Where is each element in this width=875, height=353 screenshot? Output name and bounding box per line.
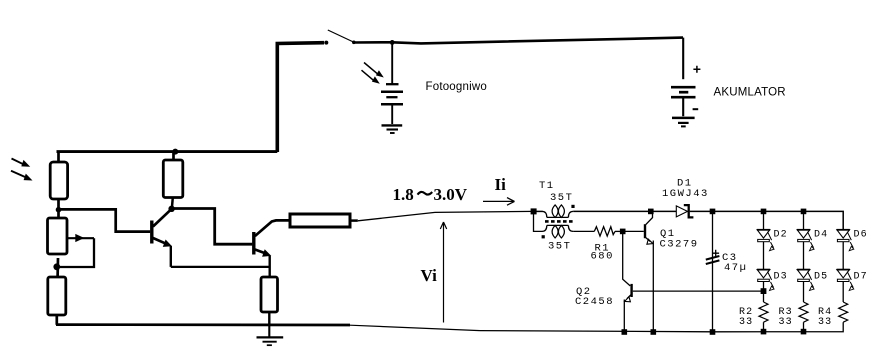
- light arrows onto photocell: [362, 63, 384, 84]
- label 680: [591, 251, 614, 263]
- wire: R2 to bottom rail: [763, 322, 765, 331]
- node: Q2 emitter on bottom rail: [622, 329, 628, 335]
- node: T1 supply node: [531, 208, 537, 214]
- junction wiper tie: [53, 263, 60, 270]
- wire: Q-a emitter lead down: [170, 246, 172, 267]
- label C3: [722, 252, 738, 264]
- wire: switch to photocell node and on to battery corner: [354, 38, 683, 44]
- label R1: [595, 243, 611, 255]
- transistor Q-a base bar: [150, 221, 153, 244]
- LED column 3 wires: [842, 242, 844, 302]
- label D4: [814, 229, 828, 240]
- diode D1: [676, 205, 693, 217]
- transistor Q1 emitter with arrow: [646, 238, 653, 245]
- label + terminal: [693, 66, 700, 73]
- wire: R1 to node N1: [615, 230, 623, 232]
- svg-text:33: 33: [739, 317, 753, 328]
- potentiometer VR: [48, 218, 68, 254]
- LED D2: [757, 230, 774, 251]
- node N1 (R1 / Q1 base / Q2 collector): [620, 229, 626, 235]
- wire: Q2 base feedback to LED column: [633, 290, 761, 292]
- LED D4: [797, 230, 814, 251]
- wire: Q2 emitter down to bottom rail: [623, 300, 625, 333]
- svg-text:Fotoogniwo: Fotoogniwo: [426, 81, 487, 93]
- resistor R2: [759, 302, 768, 322]
- wire: Q-a collector to Q-b base: [172, 209, 253, 245]
- wire: R-a bottom lead: [55, 315, 58, 325]
- wire: emitter rail: [171, 266, 270, 268]
- label D1: [677, 178, 693, 190]
- transistor Q-a collector: [153, 209, 171, 226]
- label C2458: [575, 296, 614, 308]
- transistor Q-b collector: [255, 220, 290, 236]
- LED D5: [797, 270, 814, 291]
- svg-text:D6: D6: [854, 229, 868, 240]
- label - terminal: [693, 108, 699, 110]
- svg-text:D7: D7: [854, 271, 868, 282]
- resistor R-out horizontal: [290, 214, 350, 227]
- svg-text:Vi: Vi: [421, 266, 438, 285]
- svg-text:1.8: 1.8: [393, 185, 414, 204]
- wire: top rail T1 to D1: [573, 210, 676, 212]
- label Q1: [660, 228, 676, 240]
- node: R3 on bottom rail: [801, 329, 807, 335]
- wire: thick riser from left block top rail up and right to switch: [277, 43, 324, 152]
- light arrows onto photoresistor: [11, 159, 33, 181]
- wire: C3 branch down to bottom rail: [712, 211, 714, 332]
- node: C3 on bottom rail: [710, 329, 716, 335]
- label 35T primary: [550, 192, 573, 204]
- label 35T secondary: [548, 241, 571, 253]
- node: Q1 emitter on bottom rail: [651, 329, 657, 335]
- wire: battery bottom lead: [682, 97, 684, 116]
- svg-text:D3: D3: [774, 271, 788, 282]
- wire: Q-b emitter lead down to R-e: [269, 256, 271, 278]
- wire: D1 to node N2: [690, 210, 713, 212]
- svg-text:Ii: Ii: [495, 175, 507, 194]
- wire: thin link bottom rail: [350, 325, 480, 330]
- svg-text:D4: D4: [814, 229, 828, 240]
- svg-text:33: 33: [779, 317, 793, 328]
- svg-text:1GWJ43: 1GWJ43: [662, 188, 709, 200]
- transformer T1 primary winding: [542, 205, 573, 218]
- resistor R-a lower left: [48, 277, 66, 315]
- transistor Q-b emitter with arrow: [255, 249, 271, 257]
- label Vi: [421, 266, 438, 285]
- transistor Q2 base bar: [630, 284, 632, 297]
- label Q2: [576, 286, 592, 298]
- label Fotoogniwo: [426, 81, 487, 93]
- svg-text:C2458: C2458: [575, 296, 614, 308]
- label R3: [779, 307, 793, 318]
- label Ii: [495, 175, 507, 194]
- label + of C3: [712, 250, 719, 257]
- node: R2 on bottom rail: [761, 329, 767, 335]
- wire: thin link to converter top rail: [358, 211, 533, 220]
- photoresistor (light sensor): [50, 162, 67, 199]
- wire: photocell bottom lead: [391, 104, 393, 124]
- wire: left block bottom rail: [56, 323, 350, 326]
- wire: left block top rail: [57, 150, 278, 153]
- wire: R-b to Q-a collector: [172, 198, 173, 210]
- svg-text:35T: 35T: [550, 192, 573, 204]
- resistor R-b: [163, 160, 183, 198]
- junction below photoresistor: [56, 207, 62, 213]
- svg-text:3.0V: 3.0V: [434, 185, 468, 204]
- junction: photocell tap: [390, 40, 395, 45]
- node: Q1 collector on rail: [648, 209, 654, 215]
- node: Q2 base / D3 / R2: [761, 288, 767, 294]
- wire: bottom rail of converter: [480, 322, 843, 332]
- transistor Q-b base bar: [252, 232, 255, 255]
- wire: photoresistor top lead: [57, 152, 60, 163]
- label 33 col2: [779, 317, 793, 328]
- transistor Q-a emitter with arrow: [153, 238, 172, 247]
- label D6: [854, 229, 868, 240]
- resistor R-e: [261, 277, 278, 312]
- wire: photocell top lead: [391, 42, 393, 83]
- transistor Q1 collector: [646, 214, 653, 225]
- battery AKUMLATOR: [671, 87, 696, 97]
- LED D3: [757, 270, 774, 291]
- wire: Q1 emitter down to bottom rail: [652, 241, 654, 333]
- transformer T1 secondary winding: [542, 225, 573, 238]
- wire: Q1 base wire: [625, 230, 644, 232]
- wire: photoresistor bottom lead: [57, 199, 60, 218]
- wire: R3 to bottom rail: [803, 322, 805, 331]
- T1 core (dashed): [545, 220, 574, 223]
- label D2: [774, 229, 788, 240]
- wire: pot to lower resistor: [56, 258, 59, 277]
- wire: battery top lead: [682, 38, 684, 80]
- svg-text:47µ: 47µ: [724, 262, 747, 274]
- svg-text:D5: D5: [814, 271, 828, 282]
- label T1: [539, 180, 555, 192]
- label D3: [774, 271, 788, 282]
- node: rail tap LED column 1: [761, 209, 767, 215]
- label AKUMLATOR: [714, 87, 786, 99]
- resistor R1: [594, 227, 615, 236]
- transistor Q2 collector from node N1: [623, 234, 631, 286]
- wire: R-out right stub: [350, 219, 358, 222]
- svg-text:C3279: C3279: [660, 239, 699, 251]
- T1 primary polarity dot: [571, 205, 574, 208]
- wire: R-e bottom lead: [268, 312, 270, 325]
- junction on top rail at R-b: [172, 149, 178, 155]
- label 33 col3: [818, 317, 832, 328]
- resistor R4: [839, 302, 848, 322]
- transistor Q1 base bar: [644, 224, 646, 238]
- label R4: [818, 307, 832, 318]
- T1 secondary polarity dot: [542, 235, 545, 238]
- label 47u: [724, 262, 747, 274]
- svg-text:T1: T1: [539, 180, 555, 192]
- potentiometer wiper arrow: [68, 234, 95, 242]
- arrow Vi: [440, 222, 446, 323]
- LED column 2 wires: [803, 211, 805, 302]
- LED column 1 wires: [763, 211, 765, 302]
- photocell PV (battery symbol): [381, 84, 403, 104]
- label 1GWJ43: [662, 188, 709, 200]
- transistor Q2 emitter with arrow: [625, 295, 631, 302]
- ground: left block: [257, 325, 284, 345]
- wire: secondary to R1: [573, 230, 594, 232]
- label D7: [854, 271, 868, 282]
- resistor R3: [799, 302, 808, 322]
- wire: top rail N2 to LED columns: [713, 211, 844, 229]
- wire: junction to Q-a base: [59, 209, 151, 231]
- svg-text:680: 680: [591, 251, 614, 263]
- wire: top rail left of T1: [533, 210, 543, 212]
- wire: wiper tie-down: [58, 238, 94, 267]
- label 33 col1: [739, 317, 753, 328]
- label 1.8~3.0V: [393, 185, 468, 204]
- LED D6: [837, 230, 854, 251]
- wire: T1 secondary left leg: [534, 211, 543, 231]
- svg-text:D2: D2: [774, 229, 788, 240]
- ground: under battery: [672, 118, 695, 127]
- label C3279: [660, 239, 699, 251]
- node N2 (D1 cathode / C3): [710, 209, 716, 215]
- switch S (open blade): [324, 30, 355, 45]
- arrow Ii: [483, 198, 515, 206]
- svg-text:33: 33: [818, 317, 832, 328]
- capacitor C3 plates: [706, 256, 720, 264]
- junction Q-a collector node: [168, 206, 174, 212]
- node: rail tap LED column 2: [801, 209, 807, 215]
- wire: R-b top lead: [172, 152, 175, 161]
- label D5: [814, 271, 828, 282]
- ground: under photocell: [382, 125, 403, 133]
- label R2: [739, 307, 753, 318]
- svg-text:35T: 35T: [548, 241, 571, 253]
- svg-text:AKUMLATOR: AKUMLATOR: [714, 87, 786, 99]
- LED D7: [837, 270, 854, 291]
